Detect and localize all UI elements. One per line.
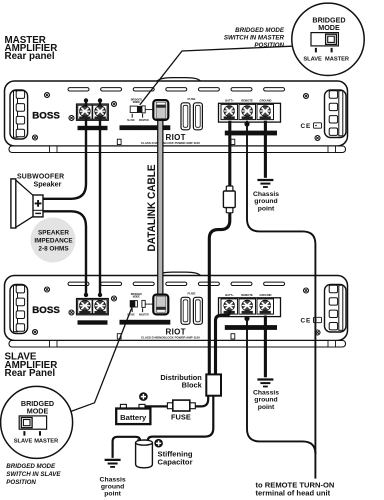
svg-text:MASTER: MASTER <box>325 57 349 63</box>
svg-text:2-8 OHMS: 2-8 OHMS <box>38 245 69 252</box>
svg-text:point: point <box>258 205 275 212</box>
svg-text:SWITCH IN MASTER: SWITCH IN MASTER <box>224 35 285 42</box>
svg-text:Battery: Battery <box>120 413 147 422</box>
svg-text:SPEAKER: SPEAKER <box>38 230 69 237</box>
svg-text:ground: ground <box>254 198 277 205</box>
svg-text:SWITCH IN SLAVE: SWITCH IN SLAVE <box>6 471 61 478</box>
svg-text:POSITION: POSITION <box>6 479 36 486</box>
svg-text:point: point <box>258 404 275 411</box>
svg-text:point: point <box>104 491 121 498</box>
svg-text:FUSE: FUSE <box>171 412 191 421</box>
svg-text:BRIDGED MODE: BRIDGED MODE <box>6 463 56 470</box>
svg-text:Rear panel: Rear panel <box>5 51 55 62</box>
svg-text:Chassis: Chassis <box>253 390 279 397</box>
svg-text:BRIDGED MODE: BRIDGED MODE <box>235 27 285 34</box>
svg-text:ground: ground <box>254 397 277 404</box>
svg-text:Chassis: Chassis <box>253 191 279 198</box>
svg-text:terminal of head unit: terminal of head unit <box>256 488 331 497</box>
svg-text:MODE: MODE <box>318 23 340 32</box>
svg-text:Rear Panel: Rear Panel <box>5 368 56 379</box>
svg-text:Speaker: Speaker <box>34 179 62 188</box>
svg-text:POSITION: POSITION <box>254 42 284 49</box>
svg-text:Block: Block <box>182 380 203 389</box>
svg-text:DATALINK CABLE: DATALINK CABLE <box>146 164 158 251</box>
svg-text:MODE: MODE <box>27 406 49 415</box>
svg-text:SLAVE: SLAVE <box>303 57 322 63</box>
svg-text:SLAVE: SLAVE <box>14 438 33 444</box>
svg-text:Capacitor: Capacitor <box>158 457 193 466</box>
svg-text:ground: ground <box>101 484 124 491</box>
svg-text:IMPEDANCE: IMPEDANCE <box>34 238 73 245</box>
svg-text:Chassis: Chassis <box>100 476 126 483</box>
svg-text:MASTER: MASTER <box>34 438 58 444</box>
